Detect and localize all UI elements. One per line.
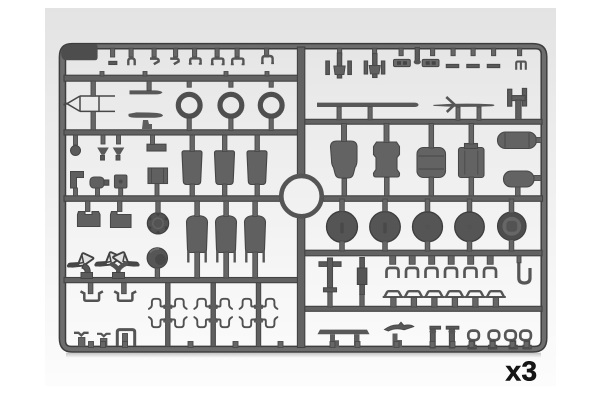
track link B3 — [394, 59, 411, 66]
part inverted-U A2 — [128, 58, 134, 65]
part dash A1 — [109, 61, 117, 64]
boot flag part H3 — [113, 252, 138, 266]
torpedo outline part — [64, 96, 116, 111]
sprue outer frame — [59, 44, 546, 352]
rod part C1 — [130, 90, 163, 94]
dash part Q4 — [446, 326, 459, 329]
frame dark tab top-left — [61, 44, 98, 60]
part m-shape B9 — [516, 62, 526, 70]
part open rect A6 — [212, 59, 223, 65]
part hook A4 — [170, 59, 178, 65]
runner R3 right — [303, 119, 542, 124]
runner R4 left — [64, 196, 280, 202]
staple part N6 — [484, 268, 496, 278]
low bracket part O3 — [424, 291, 445, 297]
D-ring part Q8 — [520, 331, 531, 341]
part hook A3 — [150, 59, 159, 65]
dash B7 — [467, 64, 479, 67]
funnel E2 — [97, 148, 109, 155]
D-ring part Q7 — [505, 331, 516, 341]
road wheel W2 — [370, 212, 401, 243]
low bracket part O4 — [444, 291, 465, 297]
gear disc G3 — [147, 213, 168, 234]
low bracket part O5 — [465, 291, 486, 297]
step bracket E5 — [71, 172, 84, 189]
track link B5 — [422, 59, 439, 66]
pin trio D3 — [508, 89, 512, 106]
tank part F2 — [374, 142, 400, 177]
bolt group B1 — [326, 61, 330, 75]
staple part N1 — [387, 268, 399, 278]
trapezoid part T1 — [182, 151, 202, 185]
road wheel W3 — [413, 212, 443, 242]
flat part E4 — [147, 144, 166, 151]
flat bar part Q1 — [318, 330, 370, 335]
staple part N4 — [445, 268, 457, 278]
svg-text:x3: x3 — [506, 356, 538, 387]
tiny bracket v3 — [117, 330, 134, 346]
staple part N2 — [406, 268, 418, 278]
thick pin part M2 — [360, 258, 365, 295]
funnel E3 — [113, 148, 125, 155]
Y part H4 — [112, 264, 126, 274]
part staple A5 — [190, 58, 200, 63]
T axle part M1 — [319, 262, 341, 267]
runner R2 left — [64, 75, 303, 81]
trapezoid part T3 — [247, 151, 267, 185]
dash part Q3 — [430, 326, 441, 329]
bottom rail stubs — [89, 342, 94, 348]
tank part F1 — [331, 141, 358, 178]
low bracket part O2 — [403, 291, 424, 297]
dash B8 — [487, 64, 499, 67]
soft shadow under bottom rail — [0, 0, 1, 1]
U bracket K1 — [81, 291, 103, 300]
runner R3 left — [64, 130, 303, 135]
capsule part F6 — [504, 171, 535, 187]
staple part N5 — [465, 268, 477, 278]
boot flag part H2 — [96, 252, 121, 266]
cylinder nub E6 — [90, 177, 104, 188]
runner R5 left — [64, 278, 303, 283]
ring part C3 — [178, 94, 200, 116]
J hook part N7 — [519, 263, 530, 284]
box part G2 — [111, 212, 132, 228]
top rail stubs left — [111, 48, 115, 57]
arrow rod part D2 — [433, 104, 494, 107]
central vertical runner upper — [297, 47, 304, 176]
trapezoid part T2 — [215, 151, 235, 185]
part arch A8 — [262, 56, 272, 63]
box E8 — [148, 168, 168, 184]
central vertical runner lower — [297, 218, 304, 348]
box part F4 — [459, 148, 485, 178]
low bracket part O1 — [383, 291, 404, 297]
ring part C5 — [260, 94, 282, 116]
runner R6 right — [303, 306, 542, 311]
tiny part v2 — [97, 334, 111, 336]
central ring — [281, 176, 321, 216]
dash B6 — [446, 64, 458, 67]
shell part S2 — [216, 216, 237, 253]
runner2 top bumps — [100, 72, 104, 77]
runner R5 right — [303, 250, 542, 256]
ring part C4 — [220, 94, 242, 116]
ring pins — [470, 341, 475, 349]
runner R4 right — [324, 196, 543, 202]
capsule part F5 — [498, 132, 537, 149]
low bracket part O6 — [485, 291, 506, 297]
rod part C2 — [129, 112, 164, 117]
bolt group B2 — [364, 61, 367, 74]
wing part Q2 — [385, 322, 414, 331]
hub wheel W5 — [498, 212, 527, 241]
long rod part D1 — [317, 103, 419, 107]
D-ring part Q6 — [489, 331, 500, 341]
road wheel W1 — [327, 211, 358, 242]
part open rect A7 — [232, 59, 243, 65]
hook assembly stem 1 — [166, 283, 170, 347]
shell part S3 — [245, 216, 266, 253]
box part G1 — [78, 212, 101, 227]
D-ring part Q5 — [468, 331, 479, 341]
pipe elbow part H1b — [82, 264, 90, 276]
hook assembly stem 2 — [211, 283, 215, 347]
road wheel W4 — [455, 212, 485, 242]
box E7 — [115, 175, 127, 188]
top rail stubs right — [338, 48, 342, 56]
wheel disc G4 — [147, 248, 167, 268]
shell part S1 — [187, 216, 208, 253]
boot flag part H1 — [69, 253, 94, 267]
small disc E1 — [71, 146, 81, 156]
pin B4 — [415, 48, 419, 62]
tiny part v1 — [74, 333, 89, 336]
hook assembly stem 3 — [256, 283, 260, 347]
staple part N3 — [426, 268, 438, 278]
U bracket K2 — [114, 291, 136, 300]
barrel part F3 — [417, 148, 446, 178]
